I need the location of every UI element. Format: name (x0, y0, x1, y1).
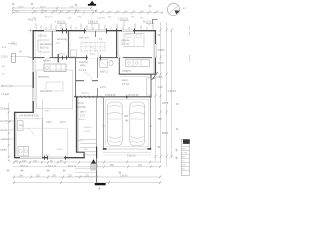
bottom ticks y166-170 (96, 165, 161, 168)
left lower wall inner (16, 114, 18, 157)
svg-text:5.0x2.1s: 5.0x2.1s (127, 156, 137, 158)
svg-text:84 trin: 84 trin (77, 102, 84, 105)
svg-text:2.04: 2.04 (158, 86, 163, 89)
left leader lines (8, 44, 32, 87)
left outside dim labels (1, 43, 22, 97)
svg-text:13 stk: 13 stk (84, 130, 91, 133)
laundry machine circles (19, 150, 22, 153)
car 2 roof box (131, 118, 144, 120)
svg-text:235,5: 235,5 (11, 43, 18, 46)
right arrow stem (152, 72, 159, 80)
svg-text:91x2.1s: 91x2.1s (45, 17, 54, 19)
svg-text:teknik: teknik (1, 129, 8, 132)
svg-text:2.35,5: 2.35,5 (1, 56, 8, 59)
dimension ticks row1 (12, 7, 92, 9)
garage door jamb left (103, 148, 107, 150)
bottom y182 ticks (13, 181, 161, 184)
svg-text:plan: plan (182, 149, 186, 151)
left lower wall x14 (14, 112, 16, 158)
svg-text:1.18x1.2s: 1.18x1.2s (55, 22, 66, 24)
svg-text:bad 6,1: bad 6,1 (100, 71, 109, 74)
garage wall cross right (149, 125, 152, 127)
entry stair lines (81, 140, 97, 156)
bryggers texts (100, 79, 130, 89)
compass needle line (170, 6, 179, 13)
window spec extra texts (33, 17, 144, 20)
entry shade patch (90, 164, 97, 171)
car 1 body (108, 102, 123, 146)
left wall window cover 2 (32, 88, 34, 101)
right dim line x171 (171, 30, 173, 158)
svg-text:90x2.1: 90x2.1 (77, 140, 84, 142)
bottom wall glazing (20, 157, 64, 158)
left wall window glazing 1 (33, 60, 34, 72)
svg-text:415,5: 415,5 (40, 6, 46, 8)
svg-text:96,5: 96,5 (158, 76, 163, 79)
house/garage wall y96 (74, 96, 152, 98)
section marker triangle top (90, 1, 95, 4)
garage inner rect (106, 99, 149, 147)
room labels (19, 35, 132, 128)
car 1 rear window (109, 137, 122, 139)
bottom dim line y182 (13, 182, 161, 184)
living divider x67 (66, 128, 68, 157)
car 2 hood line (132, 106, 145, 108)
window spec marks (57, 21, 154, 27)
stue dashed line (40, 33, 42, 56)
kitchen counter dividers (50, 64, 61, 72)
compass tick ring (166, 2, 180, 16)
garage wall cross left (102, 125, 105, 127)
wc oval (109, 60, 113, 66)
top wall jamb marks (63, 29, 135, 34)
garage mid plus (125, 119, 128, 122)
garage top mid jamb (126, 95, 128, 98)
laundry machine circle2 (24, 150, 27, 153)
entry wall corner horizontal (76, 151, 85, 153)
bottom dim texts row1 (8, 161, 77, 169)
svg-text:17,5: 17,5 (80, 115, 85, 118)
bottom dim line y166 (13, 166, 161, 168)
svg-text:garder: garder (1, 149, 8, 152)
entry step lines (75, 169, 96, 177)
right outer labels (176, 8, 187, 131)
svg-text:55 depot: 55 depot (1, 108, 10, 111)
right small cross marks (175, 149, 178, 160)
wall stub x95 (95, 31, 97, 37)
svg-text:28,5 m2: 28,5 m2 (40, 47, 49, 50)
alrum texts (46, 122, 66, 124)
top right corner bracket (153, 20, 158, 25)
laundry top line (16, 118, 42, 120)
bed rect (124, 34, 144, 47)
svg-text:92x2.1: 92x2.1 (79, 119, 86, 121)
garage bottom door line (103, 148, 151, 150)
dimension ticks row3 (12, 12, 163, 14)
bottom wall jambs (45, 156, 66, 160)
car 2 mirrors (129, 114, 131, 116)
mid wall jambs (63, 55, 101, 60)
garage door line2 (103, 151, 151, 153)
svg-text:147,5: 147,5 (100, 87, 106, 89)
top wall (33, 30, 157, 32)
svg-text:606,5: 606,5 (162, 132, 169, 135)
entry hall wall inner line (78, 98, 80, 152)
bath sink circle2 (136, 62, 139, 65)
top wall window cover (44, 30, 133, 32)
left outside labels lower (1, 108, 12, 152)
car 2 rear window (131, 137, 144, 139)
interior vertical wall x52 (51, 31, 53, 57)
shower square (100, 60, 108, 68)
far right note column (188, 26, 191, 62)
wardrobe dashed rect (81, 43, 105, 52)
svg-text:141,5: 141,5 (57, 149, 63, 151)
svg-text:vask/tørt: vask/tørt (1, 138, 10, 141)
svg-text:1.276,5: 1.276,5 (168, 90, 177, 93)
corner cross mark (29, 29, 33, 33)
bottom long dim ticks (13, 176, 161, 179)
upper bath wall vertical x119 (118, 58, 120, 75)
svg-text:1.014,5: 1.014,5 (120, 175, 128, 177)
left dim lower ticks (8, 111, 10, 158)
svg-text:køkken: køkken (43, 60, 51, 63)
svg-text:1.0x2.1s: 1.0x2.1s (97, 18, 106, 20)
svg-text:90x2.1: 90x2.1 (59, 54, 66, 56)
dimension ticks row2 (12, 9, 97, 11)
svg-text:LAV MURVÆGGE: LAV MURVÆGGE (19, 115, 39, 118)
mid wall left tick (29, 57, 34, 59)
entry wall x96 dark segment (96, 147, 98, 158)
left leader arrows lower (6, 121, 14, 139)
right extra ticks (154, 56, 167, 114)
dimension text row1 (18, 6, 74, 8)
mid wall door gap 3 (118, 57, 123, 59)
svg-text:entre 8,9: entre 8,9 (79, 37, 89, 40)
door swing mid1 (44, 58, 50, 64)
svg-text:78x21s: 78x21s (84, 127, 92, 129)
bottom texts right (110, 165, 143, 167)
svg-text:opb.v: opb.v (80, 111, 87, 114)
car 1 hood line (109, 106, 122, 108)
garage wall hatch (76, 96, 102, 98)
laundry machine divider (22, 147, 24, 157)
gang wall y80 (76, 80, 84, 82)
wardrobe dividers (86, 43, 100, 52)
laundry wall x42 upper light (41, 99, 43, 119)
svg-text:mål A3: mål A3 (188, 55, 190, 62)
window leader tick band (36, 24, 153, 30)
svg-text:rev: rev (182, 161, 185, 163)
garage left wall (103, 97, 105, 150)
svg-text:o.k.gulv: o.k.gulv (1, 93, 10, 96)
bottom wall left y158 (14, 157, 85, 159)
svg-text:gang: gang (80, 64, 86, 67)
right cabinet rect (147, 78, 152, 95)
gang texts (79, 61, 89, 72)
laundry machines (18, 147, 29, 157)
bottom inner ticks (13, 161, 151, 164)
interior vertical wall x68 (67, 31, 69, 58)
interior vertical wall x74 lower (75, 58, 77, 97)
svg-text:167,5: 167,5 (60, 122, 66, 124)
svg-text:146,5: 146,5 (46, 122, 52, 124)
compass dark wedge (175, 10, 180, 14)
left wall window glazing 2 (33, 88, 34, 101)
svg-text:14,9 m2: 14,9 m2 (38, 35, 47, 38)
svg-text:bryg: bryg (19, 124, 24, 127)
shower diagonal (100, 60, 108, 68)
svg-text:A: A (99, 187, 101, 191)
right dim line x160 (160, 22, 162, 163)
right dim ticks (154, 29, 172, 159)
bottom inner dim line y162 (13, 161, 161, 163)
svg-text:658: 658 (124, 115, 129, 118)
svg-text:1.18x1.2s: 1.18x1.2s (118, 19, 129, 21)
dimension line top row2 (12, 9, 96, 11)
step wall y112 (14, 111, 34, 113)
entre fixture (71, 50, 77, 57)
garage right wall (150, 97, 152, 150)
right arrow marker (152, 75, 156, 80)
interior vertical wall x116 (116, 31, 118, 58)
bed pillow divider (133, 34, 135, 47)
bed pillow2 (136, 35, 141, 38)
laundry wall x42 (41, 119, 43, 159)
bath fixture divider (133, 60, 141, 66)
wardrobe inner line (81, 46, 105, 48)
dimension line top row1 (12, 7, 92, 9)
title block texts (182, 149, 188, 171)
bottom long dim texts (19, 175, 128, 177)
right lower wall x151 (150, 74, 152, 97)
svg-text:anretning: anretning (57, 38, 68, 41)
car 1 mirrors (107, 114, 109, 116)
kitchen sink circles (46, 66, 49, 69)
svg-text:235,5: 235,5 (18, 6, 24, 8)
car 2 body (130, 102, 145, 146)
title block header dark (183, 139, 190, 144)
car 2 trunk line (131, 141, 144, 142)
lower faint line y128 (17, 127, 68, 129)
entry wall x96 upper (96, 97, 98, 146)
laundry cabinet (18, 121, 24, 131)
door swing mid3 (118, 52, 124, 58)
mid wall door gap 1 (45, 57, 50, 59)
right wall upper (154, 30, 156, 75)
svg-text:2.38x1.2s: 2.38x1.2s (88, 22, 99, 24)
svg-text:5,5 m2: 5,5 m2 (122, 84, 130, 86)
left dim line lower (8, 103, 10, 158)
svg-text:35,5x5.05: 35,5x5.05 (128, 94, 139, 97)
interior wall x68 inner line (69, 32, 71, 57)
svg-text:spiseplads: spiseplads (38, 77, 50, 79)
top wall window glazing (44, 30, 133, 31)
dimension text row3 (15, 11, 159, 13)
bottom long dim line y177 (13, 176, 161, 178)
left extra texts (2, 47, 7, 76)
car 1 mirror r (121, 114, 123, 116)
entry hall wall x76 (76, 97, 78, 153)
car 1 roof box (109, 118, 122, 120)
entry wall vertical x96 (96, 146, 98, 183)
bottom wall window cover (20, 157, 64, 159)
svg-text:100x2.1: 100x2.1 (81, 93, 90, 95)
right dim line x166 (166, 22, 168, 167)
svg-text:depot: depot (122, 79, 128, 82)
window spec text row (28, 19, 152, 24)
car 1 windshield (109, 112, 122, 114)
svg-text:bryggers: bryggers (122, 70, 132, 73)
svg-text:236,5: 236,5 (44, 155, 50, 157)
living room outline light (37, 70, 73, 109)
left wall window cover 1 (32, 60, 34, 72)
svg-text:2.58,5: 2.58,5 (158, 49, 166, 52)
bath wall inner line (120, 75, 151, 77)
svg-text:15,5x28: 15,5x28 (77, 106, 86, 109)
bottom plus marks (7, 169, 122, 174)
mid horizontal wall (33, 57, 152, 59)
svg-text:not 1:100: not 1:100 (188, 26, 190, 36)
title block frame (181, 139, 190, 175)
svg-text:6.56x6.56: 6.56x6.56 (105, 94, 116, 97)
bath sink circle (128, 62, 131, 65)
right wall inner line (152, 33, 154, 74)
svg-text:1:100: 1:100 (182, 153, 188, 155)
svg-text:437,5: 437,5 (162, 102, 169, 105)
svg-text:sag: sag (182, 165, 185, 167)
hall door gap x97 (97, 78, 99, 88)
garage door line3 (103, 154, 151, 156)
corner plus marks top (12, 3, 152, 8)
svg-text:358: 358 (158, 118, 163, 121)
section marker bar top (88, 4, 96, 6)
mid wall door gap 2 (88, 57, 99, 59)
right dim texts (158, 34, 177, 149)
interior small dim texts (44, 54, 113, 157)
gang wall y80 right (92, 80, 98, 82)
bed pillows (126, 35, 131, 38)
entry section bar (95, 183, 106, 185)
bath horizontal wall y74 (119, 73, 156, 75)
svg-text:3,4 m2: 3,4 m2 (79, 70, 87, 72)
compass circle (167, 3, 179, 15)
dimension line top row3 (12, 12, 163, 14)
dining table (46, 82, 63, 91)
hallway vertical x97 (97, 58, 99, 97)
svg-text:BRT.KT 93: BRT.KT 93 (1, 85, 13, 88)
svg-text:11,2 m2: 11,2 m2 (121, 43, 130, 46)
interior wall x116 inner line (117, 32, 119, 57)
left wall upper (32, 30, 34, 113)
mid wall post x58 (57, 54, 59, 63)
right dim line x155 lower (154, 78, 156, 161)
section line vertical faint (91, 6, 93, 30)
door swing mid2 (88, 47, 99, 58)
left window rect (12, 54, 16, 63)
car 1 trunk line (109, 141, 122, 142)
entry wall vertical x84 (83, 152, 85, 158)
svg-text:80x2.1: 80x2.1 (90, 54, 97, 56)
garage door jamb right (148, 148, 152, 150)
right wall window glazing (155, 44, 156, 58)
svg-text:91x2.1s: 91x2.1s (143, 22, 152, 24)
car 2 mirror r (143, 114, 145, 116)
left wall inner line (34, 32, 36, 112)
bath fixtures counter (126, 60, 150, 66)
gang door swing (84, 73, 92, 81)
kitchen counter top (44, 64, 66, 72)
sofa marks (38, 40, 50, 52)
svg-text:139,5: 139,5 (158, 62, 165, 65)
entry triangle marker (91, 159, 96, 163)
car 2 windshield (131, 112, 144, 114)
laundry door swing (25, 128, 34, 137)
title block rows (181, 147, 190, 171)
right wall window cover (154, 44, 156, 58)
svg-text:90x2.1s: 90x2.1s (28, 20, 37, 22)
